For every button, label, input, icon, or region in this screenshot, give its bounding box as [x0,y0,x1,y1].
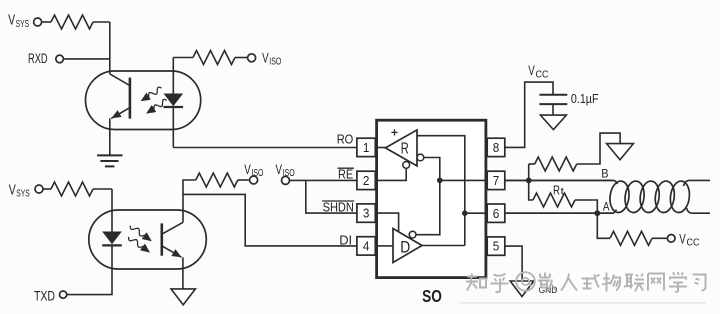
svg-text:V: V [528,63,535,78]
svg-text:B: B [601,166,608,180]
svg-text:DI: DI [339,232,352,247]
svg-text:4: 4 [363,239,370,254]
svg-text:7: 7 [493,173,500,188]
svg-text:t: t [561,185,565,197]
svg-text:R: R [553,182,560,197]
svg-text:ISO: ISO [269,56,281,67]
svg-text:RO: RO [337,131,354,146]
svg-text:V: V [276,162,283,177]
svg-text:1: 1 [363,140,370,155]
svg-text:V: V [9,182,16,198]
svg-text:6: 6 [493,206,500,221]
svg-text:0.1µF: 0.1µF [571,91,599,106]
svg-text:SHDN: SHDN [323,200,354,215]
svg-text:CC: CC [687,238,700,249]
svg-text:V: V [262,51,269,66]
svg-text:ISO: ISO [283,168,295,179]
svg-text:RXD: RXD [28,50,48,66]
svg-text:5: 5 [493,239,500,254]
svg-text:V: V [679,232,686,247]
svg-text:A: A [603,200,610,214]
svg-text:V: V [8,13,15,29]
svg-text:SO: SO [422,286,442,306]
svg-text:SYS: SYS [16,18,30,30]
svg-text:2: 2 [363,173,370,188]
svg-text:8: 8 [493,140,500,155]
svg-text:RE: RE [338,167,353,182]
svg-text:ISO: ISO [251,168,263,179]
svg-text:SYS: SYS [16,188,30,200]
svg-text:R: R [401,141,409,158]
svg-text:V: V [244,162,251,177]
svg-text:CC: CC [536,69,549,80]
svg-text:D: D [400,239,410,257]
svg-text:3: 3 [363,206,370,221]
svg-text:TXD: TXD [34,287,55,303]
